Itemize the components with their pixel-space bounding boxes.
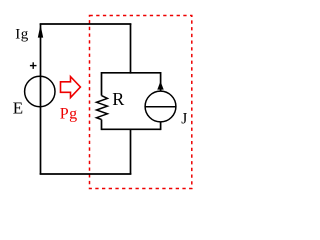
wire: top horizontal [40,23,132,25]
current Ig arrow head on left wire [38,25,43,38]
voltage source E circle [25,76,55,106]
wire: left vertical (through source E) [40,24,42,174]
current source J horizontal bar [145,106,176,108]
power flow Pg block arrow [61,77,81,98]
wire: parallel-combination bottom horizontal [102,128,161,130]
svg-text:Pg: Pg [60,105,78,122]
wire: center vertical lower segment [130,129,132,174]
wire: parallel-combination top horizontal [102,72,161,74]
wire: bottom horizontal [40,173,132,175]
resistor R zigzag [97,96,108,120]
svg-text:R: R [112,89,124,109]
wire: center vertical upper segment [130,24,132,74]
dashed boundary box (two-port / source box) [90,16,192,189]
wire: current source branch bottom stub [160,122,162,130]
wire: resistor branch bottom stub [101,120,103,131]
wire: resistor branch top stub [101,72,103,96]
voltage source + polarity mark [30,65,37,67]
svg-text:Ig: Ig [15,27,28,43]
svg-text:E: E [13,98,23,117]
current source J arrow head [157,81,163,89]
svg-text:J: J [181,111,187,128]
wire: current source branch top stub [160,72,162,91]
current source J circle [145,91,176,122]
